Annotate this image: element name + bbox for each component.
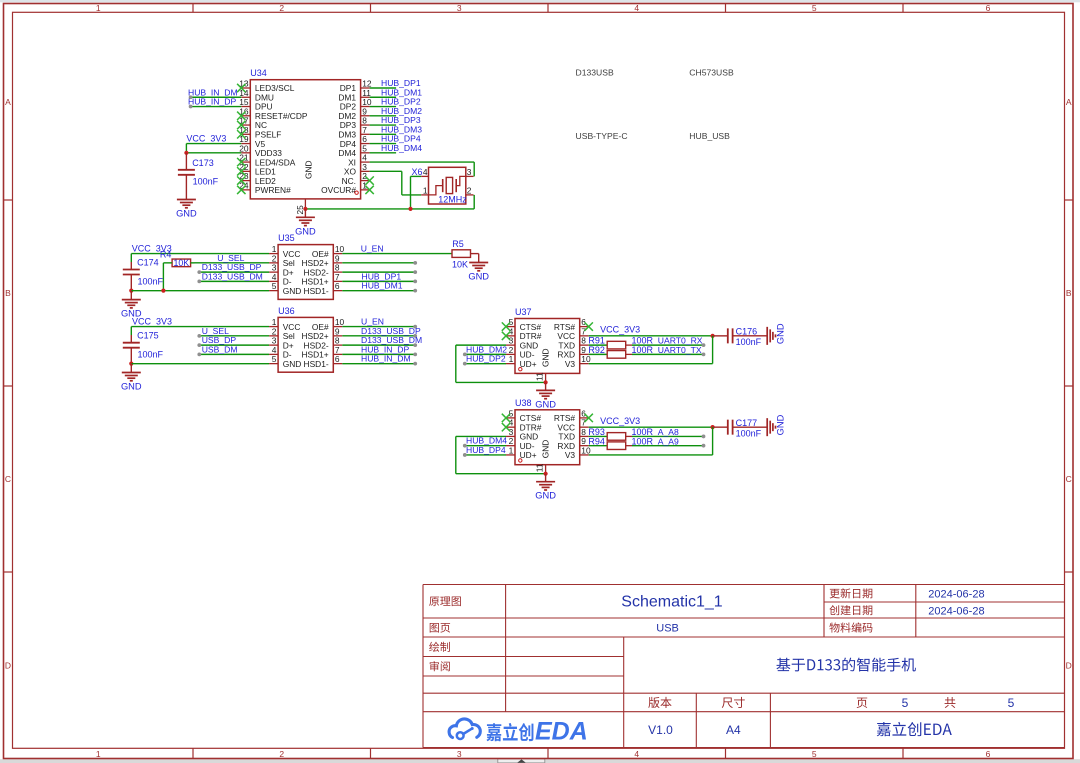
U38 pin 11 stub bbox=[545, 465, 547, 474]
wire bbox=[589, 363, 713, 365]
wire bbox=[465, 445, 506, 447]
svg-text:USB_DM: USB_DM bbox=[202, 344, 238, 354]
no-connect flag bbox=[237, 121, 245, 129]
svg-text:2: 2 bbox=[467, 186, 472, 196]
svg-text:GND: GND bbox=[535, 491, 556, 501]
ground bbox=[535, 474, 556, 501]
svg-text:100nF: 100nF bbox=[193, 177, 219, 187]
svg-text:UD+: UD+ bbox=[520, 450, 537, 460]
svg-text:2024-06-28: 2024-06-28 bbox=[928, 605, 984, 617]
unconnected wire end bbox=[702, 435, 706, 439]
wire bbox=[589, 344, 608, 346]
svg-text:A_A9: A_A9 bbox=[658, 436, 679, 446]
no-connect flag bbox=[237, 167, 245, 175]
title label 版本 bbox=[648, 697, 671, 708]
svg-text:C177: C177 bbox=[736, 418, 758, 428]
IC U34 bbox=[250, 80, 360, 199]
no-connect flag bbox=[237, 176, 245, 184]
wire bbox=[370, 143, 397, 145]
U34 pin names bbox=[255, 83, 357, 195]
svg-text:V3: V3 bbox=[565, 450, 576, 460]
unconnected wire end bbox=[189, 105, 193, 109]
wire bbox=[186, 143, 241, 145]
svg-text:1: 1 bbox=[362, 180, 367, 190]
wire bbox=[456, 381, 546, 383]
svg-text:HUB_IN_DP: HUB_IN_DP bbox=[188, 97, 237, 107]
wire bbox=[589, 335, 713, 337]
svg-text:OVCUR#: OVCUR# bbox=[321, 185, 356, 195]
svg-text:10K: 10K bbox=[173, 258, 189, 268]
U36 pin stubs bbox=[269, 327, 342, 364]
title label 绘制 bbox=[429, 642, 450, 652]
svg-text:3: 3 bbox=[457, 749, 462, 759]
wire bbox=[712, 336, 714, 364]
svg-text:A4: A4 bbox=[726, 723, 741, 737]
svg-text:C: C bbox=[5, 474, 11, 484]
svg-text:D: D bbox=[5, 660, 11, 670]
wire bbox=[589, 426, 713, 428]
wire bbox=[342, 290, 415, 292]
title label 物料编码 bbox=[829, 622, 872, 632]
wire bbox=[342, 253, 452, 255]
wire bbox=[199, 344, 269, 346]
title label 尺寸 bbox=[722, 697, 745, 708]
wire bbox=[199, 335, 269, 337]
svg-text:5: 5 bbox=[812, 3, 817, 13]
no-connect flag bbox=[502, 332, 510, 340]
unconnected wire end bbox=[413, 334, 417, 338]
svg-text:R94: R94 bbox=[588, 436, 605, 446]
svg-text:GND: GND bbox=[468, 272, 489, 282]
resistor R4 bbox=[163, 259, 194, 267]
U38 pin names bbox=[520, 413, 576, 460]
svg-text:U37: U37 bbox=[515, 307, 532, 317]
svg-text:100nF: 100nF bbox=[736, 337, 762, 347]
svg-text:3: 3 bbox=[467, 167, 472, 177]
wire bbox=[131, 363, 269, 365]
junction bbox=[544, 472, 548, 476]
U38 pin stubs bbox=[506, 418, 589, 455]
wire bbox=[370, 124, 397, 126]
crystal X6 bbox=[421, 167, 473, 204]
no-connect flag bbox=[585, 322, 593, 330]
svg-text:5: 5 bbox=[902, 696, 909, 710]
bottom scrollbar strip bbox=[0, 759, 1080, 763]
svg-text:CH573USB: CH573USB bbox=[689, 68, 734, 78]
svg-text:5: 5 bbox=[1008, 696, 1015, 710]
svg-text:6: 6 bbox=[335, 354, 340, 364]
svg-text:VCC_3V3: VCC_3V3 bbox=[186, 134, 226, 144]
wire bbox=[191, 106, 242, 108]
wire bbox=[455, 345, 457, 382]
svg-text:R5: R5 bbox=[452, 239, 464, 249]
U35 pin stubs bbox=[269, 254, 342, 291]
svg-text:GND: GND bbox=[304, 160, 314, 179]
svg-text:5: 5 bbox=[812, 749, 817, 759]
svg-text:D133_USB_DM: D133_USB_DM bbox=[202, 271, 263, 281]
JLCEDA logo cloud bbox=[449, 719, 480, 739]
no-connect flag bbox=[502, 423, 510, 431]
wire bbox=[632, 445, 704, 447]
svg-text:VCC_3V3: VCC_3V3 bbox=[600, 416, 640, 426]
U38 pin numbers bbox=[509, 408, 591, 455]
svg-text:GND: GND bbox=[121, 382, 142, 392]
title label 图页 bbox=[430, 623, 450, 633]
wire bbox=[632, 344, 704, 346]
no-connect flag bbox=[237, 130, 245, 138]
unconnected wire end bbox=[413, 343, 417, 347]
title block grid bbox=[423, 585, 1065, 748]
svg-text:1: 1 bbox=[96, 3, 101, 13]
wire bbox=[131, 253, 269, 255]
svg-text:10: 10 bbox=[581, 354, 591, 364]
unconnected wire end bbox=[413, 279, 417, 283]
project title 基于D133的智能手机 bbox=[776, 658, 915, 672]
unconnected wire end bbox=[463, 444, 467, 448]
wire bbox=[342, 363, 415, 365]
resistor R91 bbox=[607, 341, 632, 349]
svg-text:1: 1 bbox=[509, 354, 514, 364]
svg-text:U35: U35 bbox=[278, 233, 295, 243]
ground bbox=[767, 323, 786, 345]
svg-text:VCC_3V3: VCC_3V3 bbox=[132, 317, 172, 327]
top edge strip bbox=[0, 0, 1080, 2]
svg-text:U_EN: U_EN bbox=[361, 244, 384, 254]
unconnected wire end bbox=[702, 343, 706, 347]
svg-text:X6: X6 bbox=[412, 167, 423, 177]
svg-text:V1.0: V1.0 bbox=[648, 723, 673, 737]
wire bbox=[402, 194, 421, 196]
U35 pin numbers bbox=[272, 244, 345, 291]
wire bbox=[478, 254, 480, 263]
wire bbox=[199, 353, 269, 355]
wire bbox=[370, 161, 475, 163]
unconnected wire end bbox=[413, 289, 417, 293]
svg-text:C176: C176 bbox=[736, 327, 758, 337]
wire bbox=[305, 208, 474, 210]
wire bbox=[131, 290, 269, 292]
IC U36 bbox=[278, 317, 333, 372]
svg-text:GND: GND bbox=[295, 226, 316, 236]
junction bbox=[184, 151, 188, 155]
wire bbox=[465, 454, 506, 456]
svg-text:GND: GND bbox=[541, 348, 551, 367]
svg-text:GND: GND bbox=[283, 359, 302, 369]
svg-text:11: 11 bbox=[535, 463, 545, 472]
svg-text:C175: C175 bbox=[137, 331, 159, 341]
wire bbox=[401, 171, 403, 195]
unconnected wire end bbox=[413, 270, 417, 274]
junction bbox=[129, 362, 133, 366]
junction bbox=[408, 207, 412, 211]
no-connect flag bbox=[365, 176, 373, 184]
svg-text:B: B bbox=[5, 288, 11, 298]
unconnected wire end bbox=[463, 453, 467, 457]
no-connect flag bbox=[365, 186, 373, 194]
svg-text:100R: 100R bbox=[632, 345, 654, 355]
wire bbox=[370, 115, 397, 117]
ground bbox=[176, 200, 197, 219]
U36 pin numbers bbox=[272, 317, 345, 364]
svg-text:1: 1 bbox=[96, 749, 101, 759]
wire bbox=[712, 427, 714, 455]
no-connect flag bbox=[237, 112, 245, 120]
svg-text:U36: U36 bbox=[278, 306, 295, 316]
capacitor C175 bbox=[123, 335, 140, 364]
no-connect flag bbox=[502, 322, 510, 330]
wire bbox=[342, 326, 415, 328]
svg-text:100R: 100R bbox=[632, 436, 654, 446]
wire bbox=[191, 96, 242, 98]
wire bbox=[632, 353, 704, 355]
wire bbox=[199, 280, 269, 282]
IC U37 bbox=[515, 319, 580, 374]
wire bbox=[370, 87, 397, 89]
wire bbox=[473, 195, 475, 209]
IC U38 bbox=[515, 410, 580, 465]
svg-text:UD+: UD+ bbox=[520, 359, 537, 369]
svg-text:2024-06-28: 2024-06-28 bbox=[928, 589, 984, 601]
ground bbox=[767, 414, 786, 436]
wire bbox=[186, 152, 241, 154]
svg-text:C173: C173 bbox=[192, 158, 214, 168]
svg-text:6: 6 bbox=[335, 281, 340, 291]
ground bbox=[468, 263, 489, 282]
wire bbox=[342, 335, 415, 337]
svg-text:12MHz: 12MHz bbox=[438, 194, 467, 204]
no-connect flag bbox=[237, 186, 245, 194]
wire bbox=[465, 363, 506, 365]
resistor R94 bbox=[607, 442, 632, 450]
svg-text:R92: R92 bbox=[588, 345, 605, 355]
svg-text:HUB_IN_DM: HUB_IN_DM bbox=[361, 354, 411, 364]
company 嘉立创EDA bbox=[877, 722, 952, 736]
junction bbox=[129, 289, 133, 293]
ground bbox=[295, 209, 316, 236]
wire bbox=[162, 263, 164, 291]
unconnected wire end bbox=[197, 279, 201, 283]
wire bbox=[456, 473, 546, 475]
wire bbox=[370, 106, 397, 108]
svg-text:6: 6 bbox=[986, 749, 991, 759]
svg-text:GND: GND bbox=[176, 209, 197, 219]
wire bbox=[410, 176, 412, 209]
wire bbox=[342, 262, 415, 264]
wire bbox=[632, 435, 704, 437]
svg-text:5: 5 bbox=[272, 281, 277, 291]
unconnected wire end bbox=[702, 444, 706, 448]
svg-text:3: 3 bbox=[457, 3, 462, 13]
svg-text:1: 1 bbox=[423, 186, 428, 196]
svg-text:5: 5 bbox=[272, 354, 277, 364]
svg-text:VCC_3V3: VCC_3V3 bbox=[600, 325, 640, 335]
unconnected wire end bbox=[197, 343, 201, 347]
svg-text:V3: V3 bbox=[565, 359, 576, 369]
wire bbox=[589, 435, 608, 437]
wire bbox=[589, 454, 713, 456]
junction bbox=[303, 207, 307, 211]
wire bbox=[456, 344, 506, 346]
resistor R93 bbox=[607, 433, 632, 441]
wire bbox=[342, 353, 415, 355]
wire bbox=[195, 262, 270, 264]
svg-text:A: A bbox=[1066, 97, 1072, 107]
wire bbox=[185, 144, 187, 153]
U34 pin stubs bbox=[241, 88, 369, 190]
scrollbar widget bbox=[498, 759, 545, 763]
wire bbox=[199, 271, 269, 273]
svg-text:GND: GND bbox=[535, 399, 556, 409]
title label 审阅 bbox=[430, 661, 450, 671]
svg-text:HUB_DP4: HUB_DP4 bbox=[466, 445, 506, 455]
junction bbox=[711, 425, 715, 429]
unconnected wire end bbox=[413, 261, 417, 265]
svg-text:A: A bbox=[5, 97, 11, 107]
svg-text:100nF: 100nF bbox=[138, 276, 164, 286]
unconnected wire end bbox=[463, 352, 467, 356]
IC U35 bbox=[278, 245, 333, 300]
wire bbox=[411, 175, 422, 177]
svg-text:Schematic1_1: Schematic1_1 bbox=[621, 594, 722, 611]
svg-text:HUB_DM4: HUB_DM4 bbox=[381, 143, 422, 153]
wire bbox=[342, 280, 415, 282]
svg-text:D133USB: D133USB bbox=[576, 68, 614, 78]
svg-text:10: 10 bbox=[581, 445, 591, 455]
U37 pin 1 indicator bbox=[519, 368, 522, 371]
svg-text:GND: GND bbox=[283, 286, 302, 296]
junction bbox=[161, 289, 165, 293]
title label 页 bbox=[857, 698, 868, 708]
no-connect flag bbox=[237, 158, 245, 166]
ground bbox=[121, 364, 142, 392]
svg-text:HUB_DM1: HUB_DM1 bbox=[362, 281, 403, 291]
svg-text:10K: 10K bbox=[452, 259, 468, 269]
title label 更新日期 bbox=[830, 588, 873, 598]
svg-text:2: 2 bbox=[279, 3, 284, 13]
svg-text:HUB_DP2: HUB_DP2 bbox=[466, 354, 506, 364]
capacitor C174 bbox=[123, 262, 140, 291]
wire bbox=[370, 96, 397, 98]
U34 pin 25 stub bbox=[304, 199, 306, 209]
unconnected wire end bbox=[413, 362, 417, 366]
capacitor C173 bbox=[178, 153, 195, 200]
unconnected wire end bbox=[413, 352, 417, 356]
U36 pin names bbox=[283, 322, 329, 369]
unconnected wire end bbox=[197, 270, 201, 274]
svg-text:HSD1-: HSD1- bbox=[304, 359, 329, 369]
U37 pin 11 stub bbox=[545, 373, 547, 382]
svg-text:UART0_TX: UART0_TX bbox=[658, 345, 702, 355]
svg-text:GND: GND bbox=[776, 323, 786, 344]
title label 创建日期 bbox=[829, 605, 872, 615]
U37 pin names bbox=[520, 322, 576, 369]
svg-text:C174: C174 bbox=[137, 258, 159, 268]
U38 pin 1 indicator bbox=[519, 459, 522, 462]
svg-text:B: B bbox=[1066, 288, 1072, 298]
U35 pin names bbox=[283, 249, 329, 296]
unconnected wire end bbox=[463, 362, 467, 366]
no-connect flag bbox=[502, 414, 510, 422]
JLCEDA logo text bbox=[486, 718, 587, 746]
svg-text:2: 2 bbox=[279, 749, 284, 759]
wire bbox=[455, 436, 457, 473]
svg-text:100nF: 100nF bbox=[736, 428, 762, 438]
title label 原理图 bbox=[429, 596, 461, 606]
svg-text:11: 11 bbox=[535, 372, 545, 381]
no-connect flag bbox=[237, 84, 245, 92]
U37 pin stubs bbox=[506, 327, 589, 364]
svg-text:USB: USB bbox=[656, 623, 679, 635]
U34 pin numbers bbox=[239, 79, 372, 191]
svg-text:4: 4 bbox=[634, 3, 639, 13]
svg-text:C: C bbox=[1066, 474, 1072, 484]
svg-text:HSD1-: HSD1- bbox=[304, 286, 329, 296]
resistor R5 bbox=[452, 250, 479, 258]
unconnected wire end bbox=[189, 95, 193, 99]
U34 pin 1 indicator bbox=[355, 191, 358, 194]
title label 共 bbox=[945, 697, 956, 708]
svg-text:U38: U38 bbox=[515, 398, 532, 408]
svg-text:EDA: EDA bbox=[535, 718, 588, 746]
wire bbox=[130, 327, 132, 335]
svg-text:6: 6 bbox=[986, 3, 991, 13]
svg-text:D: D bbox=[1066, 660, 1072, 670]
U37 pin numbers bbox=[509, 317, 591, 364]
svg-text:100nF: 100nF bbox=[138, 350, 164, 360]
unconnected wire end bbox=[702, 352, 706, 356]
ground bbox=[535, 382, 556, 409]
wire bbox=[589, 353, 608, 355]
svg-text:PWREN#: PWREN# bbox=[255, 185, 291, 195]
wire bbox=[131, 326, 269, 328]
wire bbox=[342, 344, 415, 346]
svg-text:1: 1 bbox=[509, 445, 514, 455]
no-connect flag bbox=[585, 414, 593, 422]
wire bbox=[589, 445, 608, 447]
wire bbox=[456, 435, 506, 437]
junction bbox=[711, 334, 715, 338]
wire bbox=[342, 271, 415, 273]
junction bbox=[544, 380, 548, 384]
capacitor C177 bbox=[713, 420, 768, 435]
unconnected wire end bbox=[197, 334, 201, 338]
wire bbox=[370, 152, 397, 154]
wire bbox=[465, 353, 506, 355]
wire bbox=[473, 162, 475, 176]
svg-text:GND: GND bbox=[776, 414, 786, 435]
ground bbox=[121, 291, 142, 319]
svg-text:GND: GND bbox=[541, 440, 551, 459]
svg-text:R4: R4 bbox=[160, 249, 172, 259]
svg-text:USB-TYPE-C: USB-TYPE-C bbox=[576, 131, 628, 141]
svg-text:4: 4 bbox=[634, 749, 639, 759]
unconnected wire end bbox=[413, 325, 417, 329]
svg-text:4: 4 bbox=[423, 167, 428, 177]
wire bbox=[370, 170, 402, 172]
wire bbox=[130, 254, 132, 262]
wire bbox=[370, 133, 397, 135]
resistor R92 bbox=[607, 351, 632, 359]
svg-text:U34: U34 bbox=[250, 68, 267, 78]
capacitor C176 bbox=[713, 328, 768, 343]
svg-text:HUB_USB: HUB_USB bbox=[689, 131, 730, 141]
unconnected wire end bbox=[197, 352, 201, 356]
